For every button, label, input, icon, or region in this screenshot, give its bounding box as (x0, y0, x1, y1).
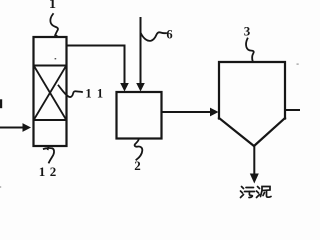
svg-text:3: 3 (244, 24, 251, 39)
svg-text:1: 1 (49, 0, 56, 12)
svg-text:6: 6 (166, 28, 172, 42)
svg-text:1: 1 (85, 87, 91, 101)
svg-text:1: 1 (97, 87, 103, 101)
svg-text:2: 2 (50, 164, 57, 179)
svg-text:2: 2 (134, 158, 141, 173)
svg-text:1: 1 (39, 164, 46, 179)
